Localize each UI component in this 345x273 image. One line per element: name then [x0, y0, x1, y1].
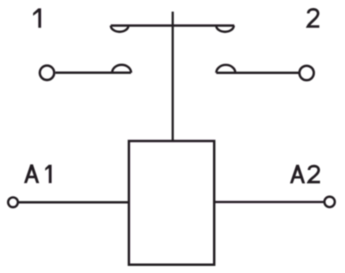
- terminal A2 circle: [324, 197, 334, 207]
- wire: contact 2 lead: [216, 72, 299, 74]
- terminal 2 circle: [299, 66, 313, 80]
- terminal A1 circle: [8, 197, 18, 207]
- wire: A1 coil lead: [19, 201, 129, 203]
- label A2 digit 2: [309, 166, 320, 182]
- wire: actuator link vertical: [172, 12, 174, 141]
- terminal label 1: [33, 8, 41, 27]
- wire: moving bridge bar: [111, 24, 234, 26]
- moving contact arc left: [111, 26, 129, 32]
- fixed contact hump left: [112, 65, 131, 73]
- coil K1: [129, 141, 214, 265]
- label A1 letter A: [24, 164, 39, 183]
- wire: contact 1 lead: [55, 72, 131, 74]
- fixed contact hump right: [216, 65, 235, 73]
- wire: A2 coil lead: [214, 201, 323, 203]
- label A1 digit 1: [45, 165, 51, 183]
- label A2 letter A: [290, 165, 305, 184]
- terminal label 2: [308, 9, 319, 26]
- terminal 1 circle: [40, 66, 54, 80]
- moving contact arc right: [216, 26, 234, 32]
